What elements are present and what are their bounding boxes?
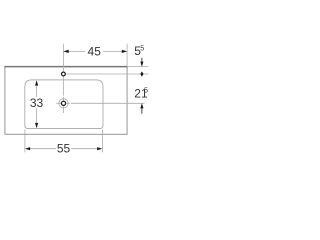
svg-text:55: 55: [57, 141, 71, 155]
svg-text:55: 55: [134, 44, 144, 58]
extension line tap centerline to right chain: [66, 73, 148, 75]
dimension 55 extension line left: [24, 130, 26, 153]
countertop outline: [4, 67, 127, 135]
dimension 33 line: [35, 80, 38, 128]
drain inner ring: [61, 101, 65, 105]
extension line top edge to right chain: [128, 66, 149, 68]
right chain lower arrow (21.5 bottom): [140, 103, 143, 113]
dimension 45 line: [63, 50, 127, 53]
svg-text:33: 33: [30, 96, 44, 110]
dimension 55 line: [25, 147, 103, 150]
extension line right edge above countertop: [126, 44, 128, 67]
centerline through tap hole and drain: [62, 44, 64, 113]
right chain diamond (5.5 / 21.5 shared): [140, 71, 143, 76]
svg-text:215: 215: [134, 86, 148, 100]
right chain upper arrow (5.5 top): [140, 58, 143, 67]
drain outer circle: [59, 99, 68, 108]
extension line drain centerline to right chain: [56, 102, 144, 104]
dimension 55 extension line right: [101, 130, 103, 153]
svg-text:45: 45: [88, 45, 102, 59]
tap hole: [62, 72, 66, 76]
basin rounded rectangle: [25, 80, 103, 129]
